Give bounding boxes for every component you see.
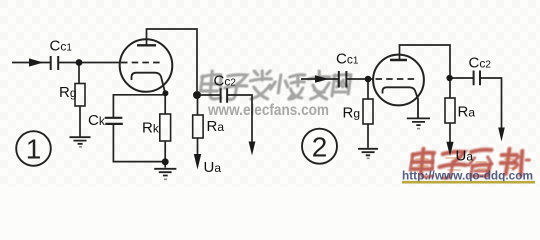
svg-text:2: 2 <box>312 131 328 162</box>
svg-text:Ua: Ua <box>456 148 474 165</box>
svg-text:http://www.qo-ddq.com: http://www.qo-ddq.com <box>402 169 533 183</box>
svg-text:Ra: Ra <box>458 104 476 121</box>
svg-text:Ra: Ra <box>207 118 225 135</box>
svg-text:1: 1 <box>26 134 42 165</box>
svg-text:Rg: Rg <box>343 105 361 122</box>
svg-text:www.elecfans.com: www.elecfans.com <box>207 102 329 119</box>
svg-text:Rg: Rg <box>59 84 77 101</box>
svg-text:Rk: Rk <box>142 120 160 137</box>
svg-text:Ua: Ua <box>204 159 222 176</box>
svg-text:Ck: Ck <box>88 112 106 129</box>
